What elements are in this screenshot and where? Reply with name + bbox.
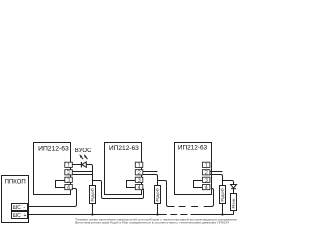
svg-text:Величина резисторов Rдоб и Rок: Величина резисторов Rдоб и Rок определяе… bbox=[75, 221, 229, 225]
svg-text:ВУОС: ВУОС bbox=[75, 148, 92, 154]
resistor Rdob 2 bbox=[155, 186, 161, 204]
VUOS LED arrow 2 bbox=[85, 156, 88, 160]
wire terminal 2 lower bbox=[72, 174, 93, 176]
wire ShS+ bus solid left section bbox=[29, 214, 167, 216]
link dash 2 bbox=[191, 206, 198, 208]
terminal ShS+ box bbox=[12, 212, 28, 219]
detector 2 jumper bracket terminals 3-4 bbox=[127, 181, 136, 188]
resistor Rdob 1 bbox=[90, 186, 96, 204]
detector 1 terminal 1 bbox=[65, 162, 73, 167]
wire detector 3 terminal 2 lower bbox=[210, 175, 223, 186]
wire VUOS return to terminal 2 bbox=[72, 171, 93, 173]
wire branch detector 3 to end-of-line diode bbox=[223, 181, 234, 185]
wire Rdob 3 to bus bbox=[222, 204, 224, 215]
detector 1 terminal 4 bbox=[65, 185, 73, 190]
detector 1 jumper bracket terminals 3-4 bbox=[56, 181, 65, 188]
wire ShS- from PPKOP up into detector 1 terminal 4 bbox=[29, 189, 77, 207]
wire detector 2 terminal 2 upper bbox=[143, 171, 158, 173]
control panel PPKOP box bbox=[2, 176, 29, 223]
wire LED to vertical bbox=[86, 165, 92, 186]
wire terminal 1 to LED bbox=[72, 164, 81, 166]
wire diode to Rok bbox=[233, 189, 235, 194]
link dash 1 bbox=[179, 206, 186, 208]
wire detector 2 terminal 2 lower bbox=[143, 175, 158, 186]
link solid right into detector 3 terminal 4 bbox=[204, 189, 214, 207]
junction dot 2 bbox=[156, 213, 158, 215]
svg-text:ШС: ШС bbox=[13, 213, 22, 219]
wire branch detector 1 to link bbox=[93, 181, 144, 199]
detector 3 terminal 1 bbox=[202, 162, 210, 167]
detector 3 terminal 2 bbox=[202, 170, 210, 175]
end-of-line diode VD bbox=[231, 185, 237, 189]
diode cathode bar bbox=[231, 188, 236, 190]
resistor Rdob 3 bbox=[220, 186, 226, 204]
detector IP212-63 no.1 box bbox=[34, 143, 71, 195]
svg-text:Rдоб: Rдоб bbox=[221, 188, 225, 202]
svg-text:Rок: Rок bbox=[232, 198, 236, 209]
detector 1 terminal 2 bbox=[65, 170, 73, 175]
wire ShS+ bus dash 2 bbox=[180, 214, 187, 216]
detector 2 terminal 1 bbox=[135, 162, 143, 167]
svg-text:ИП212-63: ИП212-63 bbox=[38, 145, 69, 152]
junction dot 1 bbox=[91, 213, 93, 215]
wire Rok to bus bbox=[233, 211, 235, 215]
VUOS LED cathode bar bbox=[80, 162, 82, 168]
detector 2 terminal 3 bbox=[135, 177, 143, 182]
svg-text:ШС: ШС bbox=[13, 205, 22, 211]
detector 2 terminal 4 bbox=[135, 185, 143, 190]
detector IP212-63 no.3 box bbox=[175, 143, 212, 195]
svg-text:+: + bbox=[24, 213, 27, 219]
wire ShS+ bus dash 1 bbox=[170, 214, 177, 216]
VUOS LED arrow 1 bbox=[81, 156, 84, 160]
wire Rdob 1 to bus bbox=[92, 204, 94, 215]
detector 2 terminal 2 bbox=[135, 170, 143, 175]
detector 3 jumper bracket terminals 3-4 bbox=[194, 181, 203, 188]
terminal ShS- box bbox=[12, 204, 28, 211]
detector 3 terminal 3 bbox=[202, 177, 210, 182]
wire ShS+ bus solid right section bbox=[191, 214, 234, 216]
VUOS LED triangle bbox=[82, 162, 86, 168]
svg-text:ИП212-63: ИП212-63 bbox=[109, 145, 139, 152]
wire branch detector 2 to link bbox=[158, 181, 175, 207]
svg-text:ППКОП: ППКОП bbox=[5, 179, 26, 185]
detector 1 terminal 3 bbox=[65, 177, 73, 182]
svg-text:ИП212-63: ИП212-63 bbox=[178, 144, 208, 151]
detector IP212-63 no.2 box bbox=[105, 143, 142, 195]
wire detector 3 terminal 2 upper bbox=[210, 171, 223, 173]
wire Rdob 2 to bus bbox=[157, 204, 159, 215]
junction dot 3 bbox=[221, 213, 223, 215]
detector 3 terminal 4 bbox=[202, 185, 210, 190]
svg-text:Rдоб: Rдоб bbox=[91, 188, 95, 202]
svg-text:Rдоб: Rдоб bbox=[156, 188, 160, 202]
resistor Rok bbox=[231, 194, 237, 211]
